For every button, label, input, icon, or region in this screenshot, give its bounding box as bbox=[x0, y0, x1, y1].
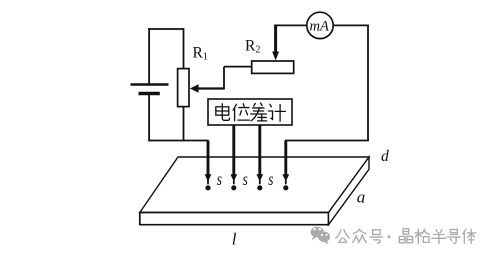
battery B1 positive plate bbox=[131, 83, 169, 86]
milliammeter mA bbox=[307, 12, 333, 38]
wire wiper horizontal to R2 bbox=[224, 66, 252, 68]
wire R1 top vertical bbox=[183, 29, 185, 69]
wire R2 wiper to ammeter bbox=[274, 24, 307, 26]
svg-text:a: a bbox=[357, 187, 366, 206]
probe 3 bbox=[256, 125, 263, 190]
sample slab front face bbox=[140, 213, 329, 225]
battery B1 negative plate bbox=[139, 92, 160, 95]
probe 1 bbox=[205, 141, 212, 191]
watermark text 公众号·晶格半导体 bbox=[336, 229, 476, 244]
wire right vertical bbox=[367, 25, 369, 141]
wire wiper vertical up bbox=[223, 67, 225, 90]
wire right horizontal to probe 4 bbox=[285, 140, 369, 142]
wiper arrow into R2 bbox=[272, 25, 279, 61]
separator dot bbox=[388, 235, 391, 238]
svg-text:R1: R1 bbox=[193, 45, 208, 63]
wire ammeter right horizontal bbox=[333, 24, 369, 26]
glyph 晶 bbox=[399, 229, 412, 243]
sample slab top face bbox=[140, 157, 369, 213]
svg-text:d: d bbox=[381, 148, 389, 165]
glyph 号 bbox=[370, 230, 383, 243]
svg-text:s: s bbox=[217, 170, 222, 189]
resistor R2 body bbox=[252, 61, 294, 73]
wiper arrow into R1 bbox=[190, 84, 224, 93]
wire battery top vertical bbox=[148, 28, 150, 84]
svg-text:l: l bbox=[232, 229, 237, 248]
resistor R1 body bbox=[178, 69, 189, 107]
glyph 半 bbox=[432, 230, 446, 244]
watermark logo chat bubbles bbox=[311, 227, 331, 245]
glyph 格 bbox=[415, 229, 429, 243]
glyph 众 bbox=[352, 229, 366, 243]
potentiometer box U1 电位差计 bbox=[208, 99, 292, 125]
svg-text:R2: R2 bbox=[245, 38, 260, 56]
glyph 电 bbox=[216, 104, 230, 121]
svg-text:s: s bbox=[268, 170, 273, 189]
wire R1 bottom vertical bbox=[183, 107, 185, 142]
wire battery bottom vertical bbox=[148, 94, 150, 142]
glyph 公 bbox=[336, 230, 350, 243]
wire top-left loop horizontal bbox=[148, 28, 184, 30]
glyph 导 bbox=[447, 229, 460, 243]
glyph 体 bbox=[463, 229, 476, 243]
wire bottom-left horizontal to probe 1 bbox=[148, 140, 208, 142]
glyph 差 bbox=[251, 103, 267, 121]
sample slab right side face bbox=[329, 157, 370, 225]
probe 2 bbox=[230, 125, 237, 190]
probe 4 bbox=[282, 141, 289, 191]
svg-text:mA: mA bbox=[310, 19, 329, 35]
glyph 计 bbox=[268, 104, 285, 121]
svg-text:s: s bbox=[243, 170, 248, 189]
glyph 位 bbox=[233, 104, 249, 121]
